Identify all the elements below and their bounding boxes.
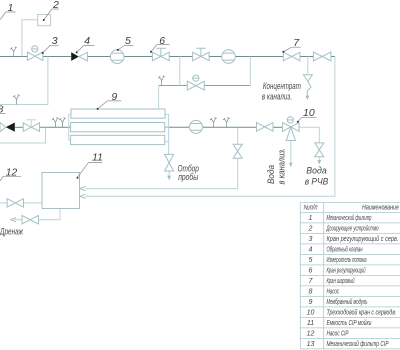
svg-text:9: 9 bbox=[111, 91, 117, 103]
wire recycle junction vertical B bbox=[249, 57, 251, 86]
valve 6 with T handle bbox=[152, 48, 169, 61]
svg-text:Дозирующее устройство: Дозирующее устройство bbox=[326, 225, 379, 233]
wire lower feed branch from left bbox=[0, 127, 46, 143]
svg-text:13: 13 bbox=[307, 341, 315, 348]
table column divider bbox=[323, 202, 325, 349]
svg-text:12: 12 bbox=[307, 331, 315, 338]
svg-text:3: 3 bbox=[309, 236, 313, 243]
wire permeate line segment 1 bbox=[165, 126, 190, 128]
leader label 11 bbox=[77, 162, 102, 177]
table horizontal lines bbox=[300, 202, 400, 349]
svg-text:Дренаж: Дренаж bbox=[0, 226, 24, 236]
wire tank inlet line bbox=[0, 202, 7, 204]
rchv arrow bbox=[317, 160, 321, 165]
wire bypass branch bbox=[0, 57, 48, 105]
sensor point on bypass line bbox=[13, 95, 20, 105]
wire rchv arrow line bbox=[318, 157, 320, 161]
wire sampling arrow line bbox=[168, 171, 170, 176]
table row numbers bbox=[307, 215, 315, 348]
valve 12 on tank inlet bbox=[7, 199, 23, 207]
svg-text:6: 6 bbox=[159, 35, 165, 47]
sensor point membrane feed 2 bbox=[59, 117, 66, 127]
svg-text:Вода: Вода bbox=[306, 165, 326, 175]
sensor point on recycle line bbox=[158, 76, 165, 86]
flow meter 5 bbox=[110, 50, 124, 64]
leader dot 9 bbox=[97, 108, 99, 110]
wire right return line down to tank bbox=[85, 57, 335, 197]
wire main feed line segment 8 bbox=[300, 56, 313, 58]
arrow into tank line B bbox=[80, 194, 86, 198]
leader label 9 bbox=[98, 101, 122, 109]
leader label 4 bbox=[77, 46, 95, 53]
wire main feed line segment 4 bbox=[124, 56, 152, 58]
leader label 12 bbox=[0, 176, 21, 181]
control valve on recycle line bbox=[187, 75, 204, 90]
svg-text:4: 4 bbox=[309, 247, 313, 254]
wire permeate branch down bbox=[237, 127, 239, 144]
wire recycle line left part bbox=[159, 85, 188, 87]
leader label 6 bbox=[151, 45, 169, 52]
svg-text:3: 3 bbox=[52, 35, 58, 47]
leader label 2 bbox=[44, 9, 59, 20]
sampling arrow bbox=[167, 176, 171, 181]
svg-text:12: 12 bbox=[6, 166, 18, 178]
leader label 7 bbox=[283, 47, 301, 52]
table left border bbox=[299, 202, 301, 349]
leader label 8 bbox=[0, 112, 6, 114]
wire membrane right header bbox=[165, 114, 169, 154]
svg-text:Концентрат: Концентрат bbox=[263, 81, 301, 91]
rchv valve bbox=[315, 143, 324, 157]
svg-text:1: 1 bbox=[309, 215, 313, 222]
svg-text:6: 6 bbox=[309, 268, 313, 275]
svg-text:8: 8 bbox=[0, 103, 4, 115]
leader dot 3 bbox=[42, 52, 44, 54]
svg-text:1: 1 bbox=[8, 2, 14, 14]
svg-text:Кран регулирующий: Кран регулирующий bbox=[327, 267, 366, 275]
svg-text:11: 11 bbox=[307, 320, 314, 327]
leader dot 10 bbox=[297, 121, 299, 123]
svg-text:Вода: Вода bbox=[266, 165, 276, 184]
wire recycle line right part bbox=[204, 85, 250, 87]
valve on permeate branch down bbox=[233, 144, 242, 158]
sensor point on permeate line 2 bbox=[223, 117, 230, 127]
svg-text:Механический фильтр CIP: Механический фильтр CIP bbox=[327, 340, 389, 348]
wire dosing branch bbox=[22, 20, 38, 57]
funnel to sewer bbox=[303, 75, 312, 100]
wire main feed line segment 9 to right corner bbox=[331, 56, 335, 58]
sampling valve bbox=[165, 154, 174, 171]
wire tank drain line bbox=[39, 209, 61, 220]
svg-text:Кран регулирующий с серв.: Кран регулирующий с серв. bbox=[327, 235, 399, 243]
svg-text:в РЧВ: в РЧВ bbox=[305, 176, 329, 186]
table row names bbox=[326, 214, 399, 348]
svg-text:10: 10 bbox=[307, 310, 315, 317]
wire tank line A bbox=[85, 158, 238, 188]
wire main feed line segment 3 bbox=[88, 56, 111, 58]
leader label 1 bbox=[0, 12, 16, 20]
wire recycle junction vertical A bbox=[179, 57, 181, 86]
three-way valve 10 with actuator bbox=[283, 117, 300, 141]
svg-text:Механический фильтр: Механический фильтр bbox=[327, 214, 372, 222]
leader dot 6 bbox=[150, 51, 152, 53]
valve 7 bbox=[283, 52, 300, 61]
svg-text:№п/п: №п/п bbox=[304, 205, 318, 212]
check valve on membrane feed line bbox=[0, 123, 15, 132]
svg-text:Мембранный модуль: Мембранный модуль bbox=[327, 298, 368, 306]
svg-text:Измеритель потока: Измеритель потока bbox=[327, 257, 367, 264]
arrow into tank line A bbox=[80, 187, 86, 191]
flow meter second bbox=[222, 50, 236, 64]
svg-text:Насос: Насос bbox=[327, 289, 340, 296]
sewer arrow from valve 10 bbox=[289, 163, 293, 168]
svg-text:5: 5 bbox=[309, 257, 313, 264]
sensor point membrane feed 1 bbox=[52, 117, 59, 127]
wire tank inlet line segment 2 bbox=[24, 202, 43, 204]
ball valve with T handle bbox=[193, 48, 210, 61]
wire membrane right tab v2 bbox=[165, 126, 169, 128]
svg-text:2: 2 bbox=[52, 0, 59, 11]
dosing device box 2 bbox=[38, 15, 51, 26]
svg-text:в канализ.: в канализ. bbox=[262, 91, 292, 101]
wire membrane right tab v3 bbox=[165, 141, 169, 143]
svg-text:Кран шаровый: Кран шаровый bbox=[327, 277, 355, 285]
valve 3 control valve with actuator bbox=[27, 46, 43, 61]
svg-text:Трехходовой кран с серводв.: Трехходовой кран с серводв. bbox=[327, 309, 397, 317]
wire membrane feed line segment 2 bbox=[40, 126, 71, 128]
svg-text:в канализ.: в канализ. bbox=[277, 148, 287, 185]
wire main feed line segment 6 bbox=[209, 56, 222, 58]
valve top right second bbox=[313, 52, 331, 61]
wire tank drain line segment 2 bbox=[14, 219, 22, 221]
valve on permeate line bbox=[257, 123, 274, 132]
wire permeate line segment 2 bbox=[203, 126, 257, 128]
leader label 5 bbox=[118, 46, 133, 50]
leader dot 2 bbox=[43, 19, 45, 21]
drain valve bbox=[22, 216, 39, 224]
svg-text:8: 8 bbox=[309, 289, 313, 296]
svg-text:Емкость CIP мойки: Емкость CIP мойки bbox=[327, 319, 372, 327]
svg-text:10: 10 bbox=[303, 107, 315, 119]
wire main feed line segment 2 bbox=[43, 56, 71, 58]
sensor point on permeate line 1 bbox=[210, 117, 217, 127]
svg-text:2: 2 bbox=[308, 226, 313, 233]
svg-text:Обратный клапан: Обратный клапан bbox=[327, 246, 363, 254]
membrane vessel 3 bbox=[71, 135, 165, 144]
membrane vessel 2 bbox=[71, 123, 165, 132]
leader label 3 bbox=[43, 45, 59, 53]
wire valve10 drain down bbox=[290, 141, 292, 163]
svg-text:11: 11 bbox=[92, 151, 103, 163]
permeate flow meter bbox=[190, 120, 203, 133]
svg-text:Насос CIP: Насос CIP bbox=[327, 331, 349, 338]
wire funnel drop line bbox=[307, 57, 309, 75]
wire rchv branch bbox=[299, 127, 319, 143]
wire permeate line segment 3 bbox=[273, 126, 283, 128]
svg-text:5: 5 bbox=[125, 35, 131, 47]
leader label 10 bbox=[298, 117, 317, 122]
leader dot 7 bbox=[282, 51, 284, 53]
feed ball valve with T handle bbox=[23, 120, 39, 132]
svg-text:9: 9 bbox=[309, 299, 313, 306]
wire main feed line segment 1 bbox=[0, 56, 27, 58]
svg-text:Наименование: Наименование bbox=[362, 205, 399, 212]
wire membrane feed line bbox=[15, 126, 23, 128]
tank 11 bbox=[42, 173, 80, 209]
wire main feed line segment 7 bbox=[235, 56, 283, 58]
svg-text:пробы: пробы bbox=[178, 172, 198, 182]
sensor point on feed line bbox=[10, 47, 17, 57]
leader dot 4 bbox=[76, 51, 78, 53]
membrane vessel 1 bbox=[71, 109, 165, 118]
drain arrow bbox=[10, 218, 16, 222]
leader dot 5 bbox=[117, 49, 119, 51]
check valve 4 bbox=[71, 52, 87, 61]
wire membrane left header bbox=[69, 114, 71, 140]
svg-text:4: 4 bbox=[84, 35, 90, 47]
wire main feed line segment 5 bbox=[169, 56, 192, 58]
wire recycle corner down to vessel 1 bbox=[158, 86, 160, 110]
leader dot 11 bbox=[77, 177, 79, 179]
